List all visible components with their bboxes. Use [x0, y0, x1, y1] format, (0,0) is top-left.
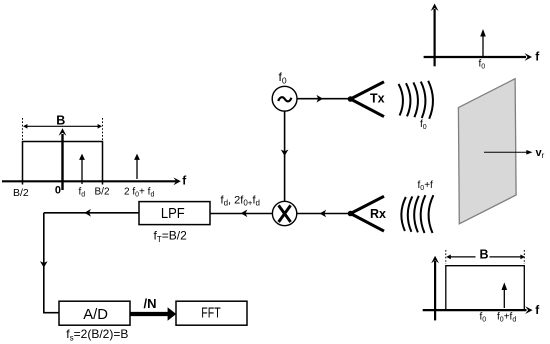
- oscillator OSC: [272, 86, 297, 111]
- svg-text:2 f0+ fd: 2 f0+ fd: [124, 187, 154, 199]
- waves Tx: [399, 81, 433, 119]
- waves Rx: [401, 195, 433, 233]
- svg-text:f0: f0: [279, 70, 287, 86]
- svg-text:vr: vr: [536, 147, 545, 160]
- svg-text:f0: f0: [420, 119, 427, 131]
- wire LPF output horizontal: [44, 209, 139, 217]
- block FFT: [176, 301, 247, 325]
- axis vertical (left graph): [59, 128, 67, 190]
- wire down to A/D: [40, 213, 59, 314]
- svg-text:LPF: LPF: [161, 206, 185, 222]
- axis f (bottom-right horizontal): [423, 306, 533, 314]
- arrow vr: [484, 150, 533, 155]
- svg-text:A/D: A/D: [83, 307, 108, 323]
- double arrow B (bottom-right): [446, 255, 525, 260]
- axis vertical (bottom-right): [431, 256, 439, 321]
- axis f (top-right horizontal): [424, 53, 532, 61]
- svg-text:f0: f0: [479, 59, 486, 71]
- svg-text:B/2: B/2: [13, 187, 29, 199]
- svg-text:fd: fd: [79, 187, 86, 199]
- svg-text:f0+f: f0+f: [418, 180, 434, 192]
- dotted guide right (bottom-right): [523, 250, 525, 264]
- axis vertical (top-right): [431, 4, 439, 67]
- svg-text:fd, 2f0+fd: fd, 2f0+fd: [221, 195, 260, 208]
- svg-text:f: f: [182, 174, 187, 188]
- svg-text:/N: /N: [144, 296, 157, 311]
- block LPF: [139, 202, 210, 225]
- svg-text:B: B: [480, 247, 489, 261]
- wire oscillator to mixer: [281, 111, 289, 201]
- svg-text:f: f: [535, 50, 540, 64]
- impulse arrow f0+fd (bottom-right): [502, 282, 508, 308]
- svg-text:f0+fd: f0+fd: [497, 312, 516, 324]
- antenna Tx: [348, 82, 384, 117]
- impulse arrow 2f0+fd (left graph): [134, 154, 140, 179]
- svg-text:FFT: FFT: [201, 306, 220, 322]
- svg-text:Tx: Tx: [370, 92, 385, 106]
- dotted guide left (left graph): [22, 118, 24, 140]
- axis f (left graph horizontal): [2, 177, 181, 185]
- wire mixer to LPF: [210, 210, 273, 218]
- dotted guide right (left graph): [102, 118, 104, 140]
- svg-text:0: 0: [55, 185, 61, 197]
- svg-text:fT=B/2: fT=B/2: [154, 229, 188, 245]
- spectrum rectangle (bottom-right): [446, 266, 525, 310]
- svg-text:Rx: Rx: [370, 207, 386, 221]
- spectrum rectangle (left graph): [23, 142, 103, 185]
- svg-text:fs=2(B/2)=B: fs=2(B/2)=B: [66, 327, 128, 343]
- mixer X: [272, 201, 296, 225]
- dotted guide left (bottom-right): [445, 250, 447, 264]
- svg-text:f0: f0: [480, 312, 487, 324]
- block A/D: [59, 301, 130, 325]
- impulse arrow f0 (top-right): [480, 29, 486, 57]
- wire oscillator to Tx: [297, 95, 351, 103]
- thick arrow A/D to FFT: [130, 307, 176, 321]
- antenna Rx: [348, 196, 384, 231]
- target plate: [458, 79, 516, 224]
- wire Rx to mixer: [297, 210, 350, 218]
- double arrow B (left graph): [23, 124, 102, 129]
- impulse arrow fd (left graph): [79, 154, 85, 184]
- svg-text:f: f: [535, 303, 540, 317]
- svg-text:B/2: B/2: [95, 187, 110, 198]
- svg-text:B: B: [56, 114, 65, 128]
